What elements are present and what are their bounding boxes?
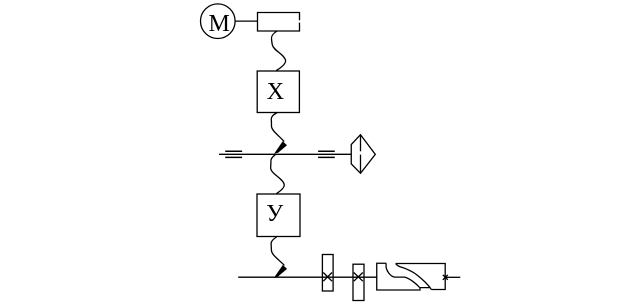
svg-text:М: М [209, 11, 230, 37]
wire motor to coupling box [235, 20, 257, 22]
clutch C3 cross on variator edge [443, 275, 448, 280]
cone wheel K1 axis upper [360, 135, 362, 152]
wire output stub [445, 276, 460, 278]
block Y (box) [257, 194, 300, 237]
shaft S1 (middle horizontal) [219, 153, 351, 155]
arrowhead A2 [274, 265, 287, 277]
arrowhead A1 [274, 141, 287, 153]
bearing right lower line [318, 156, 335, 158]
variator V1 right cone [396, 264, 446, 290]
shaft S2 (bottom horizontal) [238, 276, 377, 278]
bearing left upper line [225, 150, 242, 152]
clutch C1 cross [323, 273, 332, 282]
bearing right upper line [318, 150, 335, 152]
variator V1 right cone curve [396, 264, 431, 290]
clutch box C2 [353, 264, 364, 300]
cone wheel K1 (diamond) outline [351, 135, 375, 174]
clutch C2 cross [354, 273, 363, 282]
bearing left lower line [225, 156, 242, 158]
svg-text:Х: Х [267, 79, 284, 105]
coupling box B1 (top rectangle) [258, 13, 300, 32]
svg-text:У: У [266, 201, 283, 227]
flexible link W1 (rect to X box) [271, 31, 285, 71]
flexible link W4 (Y box to bottom shaft) [271, 237, 284, 265]
variator V1 left cone curve [386, 263, 420, 287]
block X (box) [257, 71, 299, 113]
flexible link W2 (X box to shaft) [271, 113, 284, 142]
flexible link W3 (shaft to Y box) [271, 155, 285, 194]
clutch box C1 [322, 255, 333, 292]
cone wheel K1 axis lower [360, 155, 362, 174]
variator V1 left cone [377, 263, 430, 290]
motor M1 circle [201, 4, 236, 39]
